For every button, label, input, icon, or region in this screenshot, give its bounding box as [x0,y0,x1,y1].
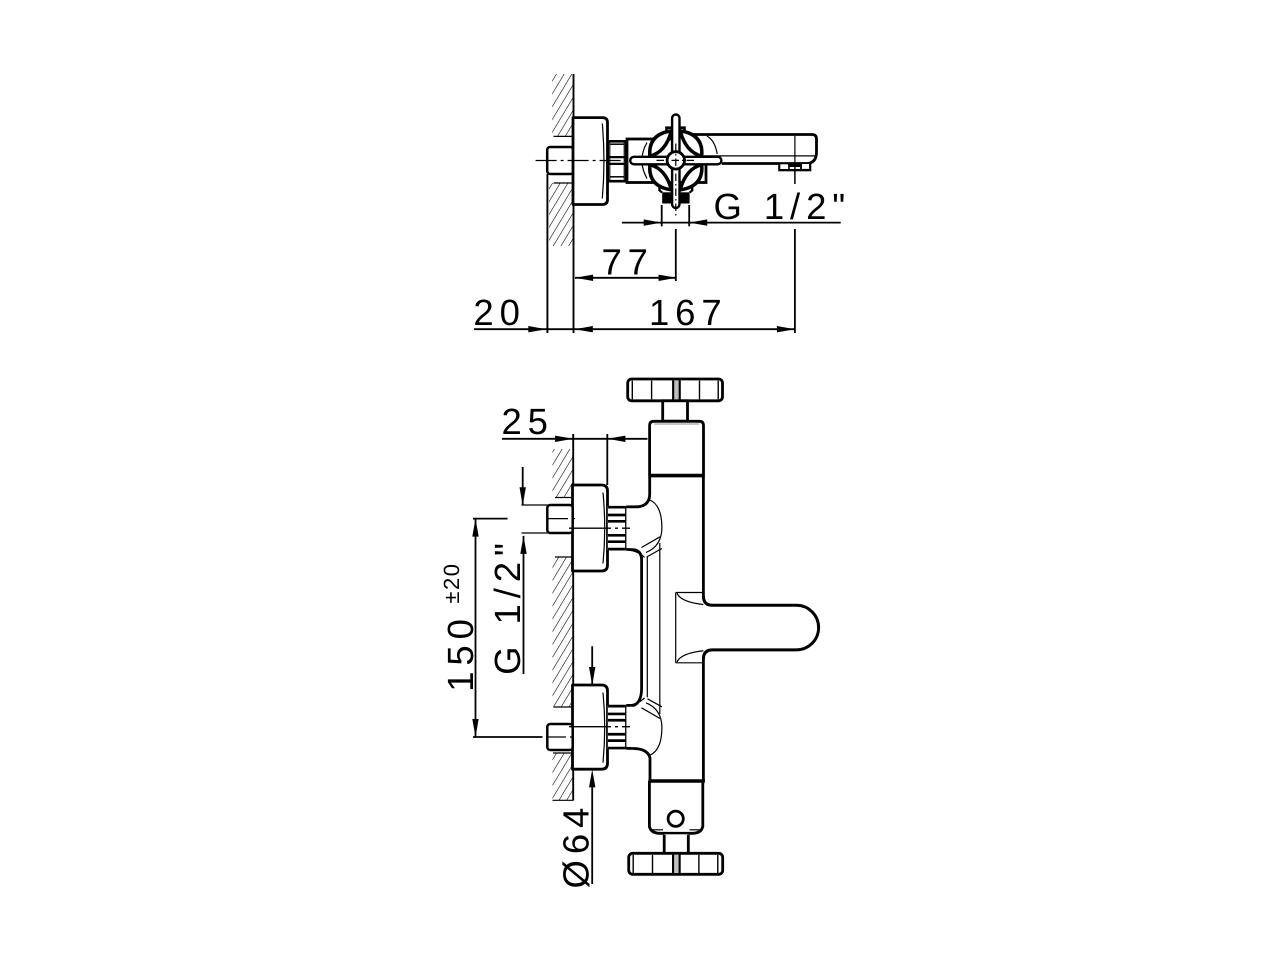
svg-text:167: 167 [649,292,728,333]
svg-text:Ø64: Ø64 [556,802,597,889]
svg-text:150: 150 [440,613,481,692]
svg-text:±20: ±20 [439,563,464,604]
svg-text:20: 20 [473,292,525,333]
svg-text:77: 77 [601,242,653,283]
svg-text:25: 25 [501,401,553,442]
svg-text:G 1/2": G 1/2" [487,537,528,675]
svg-text:G 1/2": G 1/2" [714,186,852,227]
